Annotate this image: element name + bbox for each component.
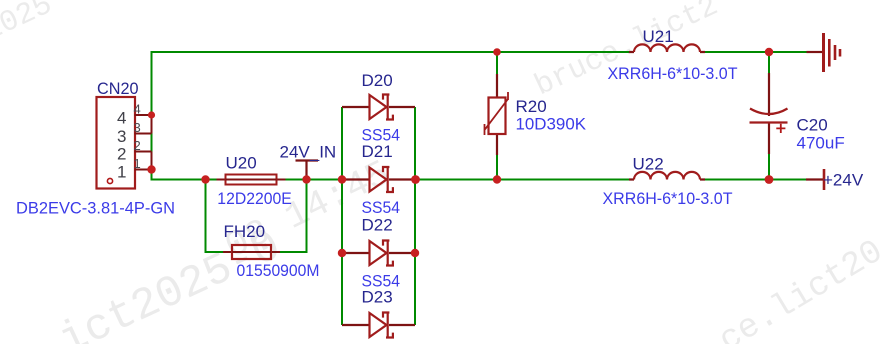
svg-text:CN20: CN20 <box>97 79 139 98</box>
svg-text:24V_IN: 24V_IN <box>280 143 337 162</box>
svg-text:+24V: +24V <box>823 170 864 189</box>
junction R20 top <box>493 48 501 56</box>
value 01550900M <box>237 261 320 280</box>
pin numbers inside CN20 <box>117 108 126 181</box>
watermark fragment top-left <box>0 0 58 57</box>
designator R20 <box>516 97 547 116</box>
designator D21 <box>362 142 393 161</box>
svg-text:2: 2 <box>134 138 141 153</box>
junction D21 left <box>338 175 346 183</box>
wire D21 out to U22 <box>416 179 630 181</box>
value XRR6H-6*10-3.0T (U21) <box>608 64 738 83</box>
value SS54 (D22) <box>362 271 401 290</box>
svg-text:12D2200E: 12D2200E <box>217 189 291 208</box>
wire top rail left segment <box>152 52 635 180</box>
designator U21 <box>643 27 674 46</box>
junction pin1 <box>147 165 155 173</box>
junction U20 left <box>201 175 209 183</box>
svg-text:DB2EVC-3.81-4P-GN: DB2EVC-3.81-4P-GN <box>16 199 175 218</box>
junction pin4 <box>148 111 155 118</box>
junction D22 left <box>338 249 346 257</box>
svg-text:D21: D21 <box>362 142 393 161</box>
junction R20 bottom <box>493 175 501 183</box>
svg-text:470uF: 470uF <box>797 133 845 152</box>
svg-text:3: 3 <box>117 127 126 146</box>
svg-text:4: 4 <box>134 102 141 117</box>
pin numbers outside CN20 <box>134 102 141 172</box>
svg-text:SS54: SS54 <box>362 198 401 217</box>
svg-text:U21: U21 <box>643 27 674 46</box>
svg-text:XRR6H-6*10-3.0T: XRR6H-6*10-3.0T <box>603 189 733 208</box>
diode D23 <box>342 313 415 338</box>
ground <box>807 33 841 72</box>
designator D22 <box>362 215 393 234</box>
value SS54 (D21) <box>362 198 401 217</box>
wire bottom rail: pin1 to U20 <box>152 170 217 180</box>
svg-text:C20: C20 <box>797 116 828 135</box>
junction D21 right <box>411 175 420 184</box>
svg-text:1: 1 <box>134 156 141 171</box>
value 10D390K <box>516 115 587 134</box>
fuse U20 <box>217 175 286 185</box>
svg-text:R20: R20 <box>516 97 547 116</box>
junction C20 bottom <box>765 175 774 184</box>
svg-text:FH20: FH20 <box>224 222 266 241</box>
svg-text:D20: D20 <box>362 71 393 90</box>
designator U22 <box>633 155 664 174</box>
diode D20 <box>342 95 415 120</box>
net label 24V_IN <box>280 143 337 179</box>
wire FH20 loop <box>206 180 307 253</box>
wire U22 to +24V port <box>705 179 806 181</box>
svg-text:01550900M: 01550900M <box>237 261 320 280</box>
wire top rail right segment <box>700 51 807 53</box>
svg-text:U20: U20 <box>226 153 257 172</box>
watermark fragment center <box>219 153 397 269</box>
varistor R20 <box>485 74 509 155</box>
svg-text:1: 1 <box>117 163 126 182</box>
designator C20 <box>797 116 828 135</box>
designator CN20 <box>97 79 139 98</box>
diode D21 <box>342 167 415 192</box>
svg-text:3: 3 <box>134 120 141 135</box>
junction 24V_IN <box>302 175 310 183</box>
watermark fragment bottom-right <box>713 233 880 344</box>
fuse FH20 <box>223 245 280 259</box>
wire U20 right to diode bus <box>286 179 343 181</box>
wire diode left bus <box>341 107 343 325</box>
value 470uF <box>797 133 845 152</box>
designator D23 <box>362 287 393 306</box>
svg-text:D22: D22 <box>362 215 393 234</box>
svg-text:10D390K: 10D390K <box>516 115 587 134</box>
inductor U21 <box>629 44 705 52</box>
wire C20 stubs <box>768 52 770 180</box>
wire R20 stubs <box>496 52 498 180</box>
diode D22 <box>342 241 415 266</box>
wire diode right bus <box>414 107 416 325</box>
value SS54 (D20) <box>362 125 401 144</box>
designator FH20 <box>224 222 266 241</box>
designator D20 <box>362 71 393 90</box>
svg-text:U22: U22 <box>633 155 664 174</box>
junction D22 right <box>411 249 419 257</box>
watermark fragment bottom-left <box>28 222 289 344</box>
value 12D2200E <box>217 189 291 208</box>
svg-text:4: 4 <box>117 108 126 127</box>
watermark fragment top-right <box>530 0 724 104</box>
connector CN20 <box>97 97 152 189</box>
svg-text:XRR6H-6*10-3.0T: XRR6H-6*10-3.0T <box>608 64 738 83</box>
designator U20 <box>226 153 257 172</box>
svg-text:2: 2 <box>117 145 126 164</box>
power port +24V <box>806 169 864 190</box>
value DB2EVC-3.81-4P-GN <box>16 199 175 218</box>
svg-text:D23: D23 <box>362 287 393 306</box>
junction C20 top <box>765 48 773 56</box>
value XRR6H-6*10-3.0T (U22) <box>603 189 733 208</box>
capacitor C20 <box>750 73 788 154</box>
inductor U22 <box>629 172 705 180</box>
